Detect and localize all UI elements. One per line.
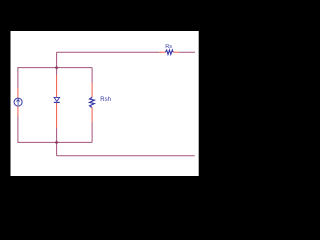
junction dot at loop-bottom / diode branch <box>55 141 58 144</box>
wire: inner loop top horizontal <box>17 67 92 69</box>
wire: top rail riser from junction <box>56 52 58 67</box>
wire: Rs left lead (red) <box>159 51 165 53</box>
diode D1 <box>54 97 60 102</box>
wire: current source top lead (red) <box>17 89 19 99</box>
schematic canvas <box>11 31 199 176</box>
label Rsh <box>100 97 111 103</box>
wire: inner loop left vertical (bottom segment) <box>17 116 19 142</box>
wire: Rsh branch top (maroon) <box>91 68 93 83</box>
wire: current source bottom lead (red) <box>17 106 19 116</box>
wire: Rsh bottom lead (red) <box>91 108 93 122</box>
svg-text:Rs: Rs <box>165 44 172 50</box>
resistor Rsh (zigzag) <box>90 97 95 107</box>
wire: top rail horizontal (right of Rs) <box>179 51 195 53</box>
wire: inner loop left vertical (top segment) <box>17 68 19 89</box>
label Rs <box>165 44 172 50</box>
wire: diode branch upper (maroon from loop-top down) <box>56 68 58 75</box>
svg-text:Rsh: Rsh <box>100 97 111 103</box>
wire: diode branch lower (maroon to loop-bottom) <box>56 128 58 142</box>
current source I1 <box>14 98 22 106</box>
wire: Rsh top lead (red) <box>91 83 93 97</box>
wire: top rail horizontal (left of Rs) <box>57 51 160 53</box>
wire: diode cathode lead (red) <box>56 103 58 128</box>
resistor Rs (zigzag) <box>166 50 174 54</box>
junction dot at loop-top / diode branch <box>55 66 58 69</box>
wire: diode anode lead (red) <box>56 75 58 97</box>
wire: inner loop bottom horizontal <box>17 141 92 143</box>
wire: bottom rail drop from junction <box>56 142 58 155</box>
wire: bottom rail horizontal <box>57 155 195 157</box>
wire: Rs right lead (red) <box>173 51 179 53</box>
wire: Rsh branch bottom (maroon) <box>91 122 93 142</box>
